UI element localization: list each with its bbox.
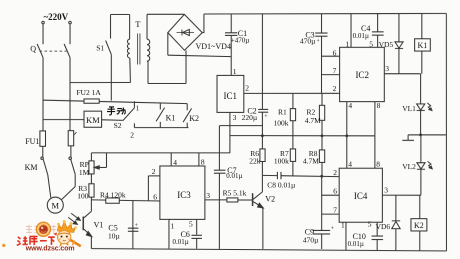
svg-text:IC4: IC4 xyxy=(354,191,368,201)
svg-text:6: 6 xyxy=(153,193,157,202)
svg-text:K2: K2 xyxy=(414,221,424,230)
svg-text:KM: KM xyxy=(86,115,100,125)
svg-text:IC2: IC2 xyxy=(355,70,369,80)
svg-text:V1: V1 xyxy=(94,221,104,230)
svg-text:100: 100 xyxy=(77,191,89,200)
svg-text:22k: 22k xyxy=(249,156,261,165)
svg-text:8: 8 xyxy=(377,101,381,110)
svg-text:IC1: IC1 xyxy=(224,91,238,101)
svg-text:3: 3 xyxy=(206,191,210,200)
svg-text:2: 2 xyxy=(333,168,337,177)
svg-text:470µ: 470µ xyxy=(303,236,319,245)
svg-text:4.7M: 4.7M xyxy=(303,156,319,165)
svg-text:470µ: 470µ xyxy=(300,36,316,45)
svg-text:+: + xyxy=(135,223,139,229)
svg-text:8: 8 xyxy=(376,160,380,169)
svg-text:VL2: VL2 xyxy=(402,162,416,171)
svg-text:+470µ: +470µ xyxy=(231,36,249,44)
svg-text:6: 6 xyxy=(333,48,337,57)
svg-text:R2: R2 xyxy=(307,107,316,116)
svg-text:5: 5 xyxy=(369,40,373,49)
svg-text:4: 4 xyxy=(348,160,352,169)
svg-text:M: M xyxy=(51,200,59,210)
svg-text:Q: Q xyxy=(30,44,36,53)
svg-text:R1: R1 xyxy=(278,108,287,117)
svg-text:R4 120k: R4 120k xyxy=(100,190,126,199)
svg-text:3: 3 xyxy=(233,113,237,122)
svg-text:+: + xyxy=(331,226,335,232)
svg-text:S2: S2 xyxy=(114,121,122,130)
svg-text:IC3: IC3 xyxy=(177,190,191,200)
svg-text:5: 5 xyxy=(189,220,193,229)
svg-text:100k: 100k xyxy=(274,156,289,165)
svg-text:www.dzsc.com: www.dzsc.com xyxy=(25,246,75,253)
svg-text:~220V: ~220V xyxy=(44,12,69,22)
svg-text:3: 3 xyxy=(385,64,389,73)
svg-text:1: 1 xyxy=(233,67,237,76)
svg-text:4: 4 xyxy=(173,158,177,167)
svg-text:FU2 1A: FU2 1A xyxy=(76,88,101,97)
svg-text:R5 5.1k: R5 5.1k xyxy=(223,188,247,197)
svg-text:KM: KM xyxy=(25,163,38,172)
svg-text:3: 3 xyxy=(384,186,388,195)
svg-text:0.01µ: 0.01µ xyxy=(353,32,369,40)
svg-text:1: 1 xyxy=(136,104,140,112)
svg-text:+: + xyxy=(264,114,268,120)
svg-text:1: 1 xyxy=(345,40,349,49)
svg-text:220µ: 220µ xyxy=(242,113,258,122)
svg-text:1: 1 xyxy=(171,221,175,230)
svg-text:VD5: VD5 xyxy=(379,40,394,49)
svg-text:6: 6 xyxy=(333,187,337,196)
svg-text:0.01µ: 0.01µ xyxy=(348,240,364,248)
svg-text:V2: V2 xyxy=(265,194,275,203)
svg-text:7: 7 xyxy=(333,66,337,75)
svg-text:10µ: 10µ xyxy=(108,231,121,240)
svg-text:VD6: VD6 xyxy=(376,222,391,231)
svg-text:8: 8 xyxy=(201,158,205,167)
svg-text:2: 2 xyxy=(152,167,156,176)
svg-text:0.01µ: 0.01µ xyxy=(226,172,242,180)
svg-text:1: 1 xyxy=(341,220,345,229)
svg-text:S1: S1 xyxy=(96,43,104,52)
svg-text:7: 7 xyxy=(333,206,337,215)
svg-text:2: 2 xyxy=(333,84,337,93)
svg-text:VL1: VL1 xyxy=(402,104,416,113)
svg-text:5: 5 xyxy=(368,220,372,229)
svg-text:FU1: FU1 xyxy=(25,137,39,146)
svg-text:100k: 100k xyxy=(274,118,289,127)
svg-text:0.01µ: 0.01µ xyxy=(172,238,188,246)
svg-text:C8 0.01µ: C8 0.01µ xyxy=(267,181,296,190)
svg-text:1M: 1M xyxy=(79,168,90,177)
svg-text:VD1~VD4: VD1~VD4 xyxy=(196,42,231,51)
svg-text:K1: K1 xyxy=(166,114,176,123)
svg-text:K2: K2 xyxy=(189,114,199,123)
svg-text:2: 2 xyxy=(245,84,249,93)
svg-text:2: 2 xyxy=(130,131,134,140)
svg-text:4.7M: 4.7M xyxy=(305,116,321,125)
svg-text:K1: K1 xyxy=(418,41,428,50)
svg-text:4: 4 xyxy=(348,101,352,110)
svg-text:T: T xyxy=(135,19,141,29)
